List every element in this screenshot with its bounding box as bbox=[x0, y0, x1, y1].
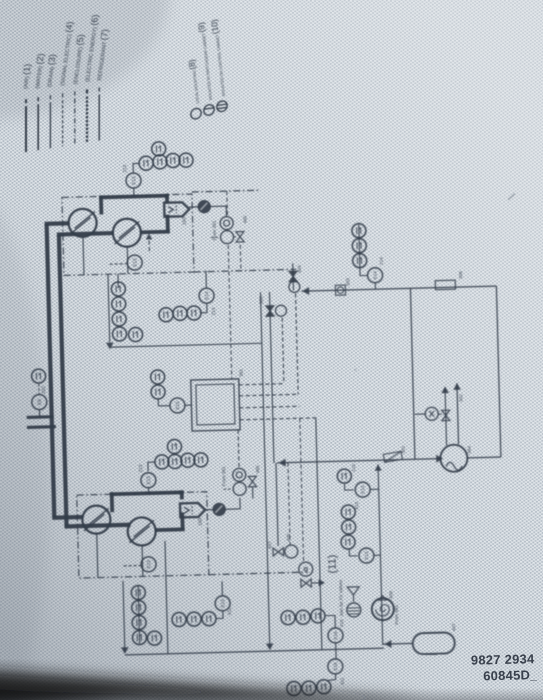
svg-text:412: 412 bbox=[227, 607, 232, 615]
svg-text:407: 407 bbox=[451, 623, 456, 631]
svg-text:304: 304 bbox=[297, 265, 302, 273]
svg-text:E14: E14 bbox=[373, 271, 378, 280]
svg-text:E16: E16 bbox=[333, 631, 338, 640]
svg-text:60845D_: 60845D_ bbox=[483, 667, 537, 683]
svg-text:E13: E13 bbox=[364, 551, 369, 560]
svg-text:E16: E16 bbox=[333, 662, 338, 671]
svg-text:306: 306 bbox=[458, 271, 463, 279]
svg-text:E13: E13 bbox=[360, 485, 365, 494]
svg-text:(11): (11) bbox=[326, 555, 338, 574]
svg-text:E13: E13 bbox=[146, 476, 151, 485]
svg-text:160: 160 bbox=[197, 518, 202, 526]
svg-text:408: 408 bbox=[286, 533, 291, 541]
svg-text:465: 465 bbox=[255, 465, 260, 473]
svg-text:465: 465 bbox=[242, 215, 247, 223]
svg-text:Join for FV valves: Join for FV valves bbox=[338, 579, 344, 616]
svg-text:E13: E13 bbox=[146, 560, 151, 569]
svg-text:From 361: From 361 bbox=[212, 220, 218, 240]
svg-text:From 361: From 361 bbox=[394, 604, 400, 624]
svg-text:E13: E13 bbox=[220, 599, 225, 608]
svg-text:9827 2934: 9827 2934 bbox=[471, 651, 535, 667]
svg-text:160: 160 bbox=[181, 217, 186, 225]
svg-text:214: 214 bbox=[211, 307, 216, 315]
svg-text:E14: E14 bbox=[204, 291, 209, 300]
svg-text:E13: E13 bbox=[131, 176, 136, 185]
svg-text:From 361: From 361 bbox=[221, 466, 227, 486]
svg-text:409: 409 bbox=[388, 591, 393, 599]
svg-text:215: 215 bbox=[351, 464, 356, 472]
svg-text:411: 411 bbox=[340, 677, 345, 685]
svg-text:E8: E8 bbox=[37, 399, 42, 405]
svg-text:E13: E13 bbox=[132, 258, 137, 267]
svg-text:E15: E15 bbox=[175, 401, 180, 410]
svg-text:364: 364 bbox=[467, 446, 472, 454]
svg-text:410: 410 bbox=[339, 619, 344, 627]
svg-text:214: 214 bbox=[379, 257, 384, 265]
svg-text:302: 302 bbox=[458, 394, 463, 402]
svg-text:361: 361 bbox=[238, 368, 243, 376]
svg-text:303: 303 bbox=[345, 278, 350, 286]
svg-text:213: 213 bbox=[122, 164, 127, 172]
svg-text:301: 301 bbox=[401, 445, 406, 453]
svg-text:407: 407 bbox=[267, 541, 272, 549]
svg-text:213: 213 bbox=[138, 464, 143, 472]
svg-text:413: 413 bbox=[354, 501, 359, 509]
svg-text:202: 202 bbox=[41, 386, 46, 394]
